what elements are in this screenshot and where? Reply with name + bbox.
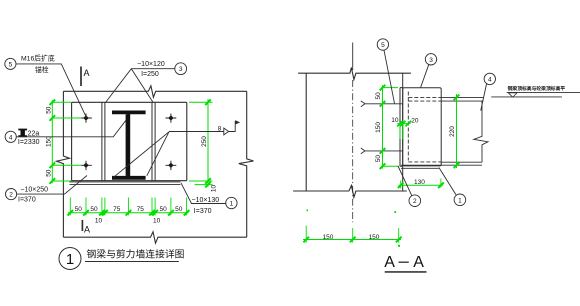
dimension 220 (449, 94, 460, 168)
svg-text:钢梁与剪力墙连接详图: 钢梁与剪力墙连接详图 (87, 248, 185, 261)
anchor bar bottom (hooked) (361, 148, 403, 154)
section marker A bottom (82, 220, 90, 235)
callout 1 (section) (439, 168, 466, 206)
weld symbol 8 with leader (114, 121, 240, 178)
svg-text:A: A (84, 68, 90, 78)
anchor bolt bottom-left (81, 161, 92, 170)
svg-text:1: 1 (230, 201, 234, 208)
anchor bolt bottom-right (166, 161, 177, 170)
callout 2 plate -10x250 (6, 176, 88, 204)
svg-text:I=250: I=250 (141, 71, 159, 78)
svg-text:M16后扩底: M16后扩底 (21, 54, 55, 63)
svg-text:1: 1 (458, 197, 462, 204)
plate P1 edge strip -10x130 (70, 182, 181, 185)
stiffener plate edge lines right pair (152, 102, 155, 180)
svg-text:3: 3 (179, 66, 183, 73)
svg-text:5: 5 (9, 61, 13, 68)
plate P1 bottom plate -10x130 (section) (401, 167, 439, 169)
wire wall left face (305, 73, 307, 191)
plate P2 embedded plate -10x250 (72, 102, 187, 180)
svg-text:−10×250: −10×250 (20, 186, 48, 193)
beam bottom flange (hidden part dashed) (401, 162, 482, 165)
svg-text:50: 50 (175, 206, 183, 213)
anchor bolt top-right (166, 114, 177, 123)
wire wall outline bottom (with break) (63, 232, 246, 243)
centerline of wall (352, 43, 354, 223)
svg-text:150: 150 (46, 136, 53, 147)
callout 1 plate -10x130 (181, 183, 237, 215)
dimension 130 (398, 179, 444, 189)
svg-text:20: 20 (411, 117, 419, 124)
svg-text:50: 50 (46, 106, 53, 114)
svg-text:150: 150 (369, 234, 380, 241)
svg-text:I=370: I=370 (18, 197, 36, 204)
anchor bar top (hooked) (361, 101, 403, 107)
stiffener plate edge lines left pair (102, 102, 105, 180)
stray green speck mid (394, 211, 396, 213)
dimension 50/150/50 (right view) (375, 85, 399, 169)
wire wall outline top (with break) (63, 86, 246, 98)
svg-text:220: 220 (449, 126, 456, 137)
svg-text:50: 50 (46, 169, 53, 177)
dimension bottom 50/50/10/75/75/10/50/50 (68, 198, 190, 225)
title A-A (384, 254, 426, 272)
svg-text:10: 10 (211, 185, 218, 193)
beam I22a section (plan) (112, 111, 146, 180)
svg-text:50: 50 (375, 155, 382, 163)
beam top flange (hidden part dashed) (408, 97, 483, 101)
svg-text:10: 10 (153, 218, 161, 225)
svg-text:−10×120: −10×120 (137, 61, 165, 68)
svg-text:50: 50 (159, 206, 167, 213)
title circle 1 detail (59, 248, 184, 270)
svg-text:150: 150 (375, 122, 382, 133)
svg-text:150: 150 (323, 234, 334, 241)
svg-text:75: 75 (113, 206, 121, 213)
svg-text:50: 50 (375, 92, 382, 100)
anchor bolt top-left (81, 114, 92, 123)
svg-text:50: 50 (75, 206, 83, 213)
svg-text:−10×130: −10×130 (192, 197, 220, 204)
svg-text:I=2330: I=2330 (18, 139, 40, 146)
svg-text:4: 4 (9, 134, 13, 141)
wire wall top edge (with break) (298, 68, 411, 80)
stray green speck under leader (398, 245, 400, 247)
dimension 10/20 (391, 117, 419, 139)
dimension left 50/150/50 (46, 100, 82, 184)
svg-text:75: 75 (137, 206, 145, 213)
svg-text:10: 10 (95, 218, 103, 225)
svg-text:5: 5 (381, 42, 385, 49)
svg-text:4: 4 (488, 76, 492, 83)
wire wall bottom edge (with break) (293, 186, 407, 198)
plate P2 embedded plate edge (section) (400, 88, 403, 167)
svg-text:2: 2 (413, 198, 417, 205)
wire wall outline right (with break) (239, 91, 254, 237)
svg-text:锚栓: 锚栓 (35, 65, 49, 74)
stray green speck left (307, 210, 309, 212)
beam cut line (with break) (474, 101, 488, 162)
svg-text:10: 10 (391, 117, 399, 124)
svg-text:130: 130 (414, 179, 425, 186)
svg-text:I=370: I=370 (194, 208, 212, 215)
svg-text:A: A (413, 254, 424, 271)
svg-text:A: A (384, 254, 395, 271)
wire wall right face (402, 73, 404, 191)
svg-text:3: 3 (429, 57, 433, 64)
svg-text:8: 8 (218, 125, 222, 132)
svg-text:2: 2 (9, 192, 13, 199)
callout 5 M16 anchor (5, 54, 87, 118)
dimension right 250 and 10 (189, 99, 218, 192)
callout 2 (section) (398, 166, 421, 207)
callout 3 (section) (421, 54, 437, 88)
level mark (beam top) (491, 85, 580, 97)
svg-text:1: 1 (66, 251, 74, 268)
svg-text:250: 250 (201, 136, 208, 147)
hidden edge dashed vertical (407, 92, 409, 161)
dimension 150/150 (section) (303, 226, 402, 243)
stiffener plate -10x120 (section outline) (403, 88, 442, 166)
wire wall outline left (with break) (57, 91, 70, 237)
svg-text:A: A (84, 225, 90, 235)
callout 4 beam 22a (5, 120, 126, 146)
callout 5 (section) (377, 39, 394, 104)
callout 3 stiffener -10x120 (106, 61, 187, 102)
section marker A top (81, 67, 90, 87)
svg-text:钢梁顶标高与砼梁顶标高平: 钢梁顶标高与砼梁顶标高平 (508, 85, 566, 92)
callout 4 (section) (481, 73, 496, 110)
svg-text:50: 50 (90, 206, 98, 213)
